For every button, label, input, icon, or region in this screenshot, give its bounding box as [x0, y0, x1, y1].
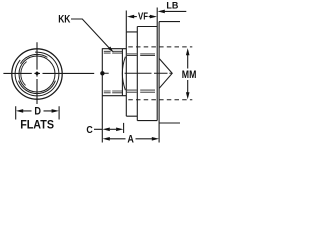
- svg-text:MM: MM: [182, 69, 197, 81]
- svg-text:D: D: [34, 105, 41, 117]
- svg-text:KK: KK: [58, 14, 70, 26]
- svg-text:A: A: [127, 133, 134, 144]
- svg-text:VF: VF: [138, 12, 148, 23]
- svg-text:FLATS: FLATS: [20, 118, 54, 132]
- svg-text:C: C: [86, 124, 93, 136]
- svg-text:LB: LB: [166, 0, 178, 11]
